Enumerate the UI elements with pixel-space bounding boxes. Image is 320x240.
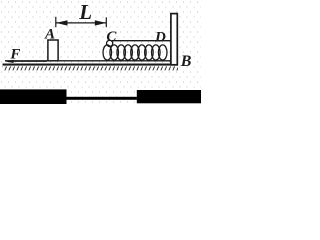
dimension L: left tick (55, 17, 57, 27)
bottom black bar right (137, 90, 201, 103)
svg-text:D: D (154, 29, 166, 45)
svg-text:A: A (44, 27, 55, 43)
dimension L: left arrowhead (56, 20, 68, 25)
wall B (171, 14, 177, 65)
ground thick band (3, 64, 179, 66)
bottom black bar middle thin (67, 97, 137, 100)
spring coil (103, 45, 167, 60)
dimension L: right tick (105, 17, 107, 27)
force F arrow (12, 60, 47, 62)
dimension L: line (56, 22, 106, 24)
spring end hook at C (107, 40, 113, 46)
svg-text:L: L (78, 0, 92, 24)
svg-text:C: C (106, 29, 117, 45)
block A (48, 40, 58, 61)
spring top rod line (112, 40, 171, 42)
svg-text:B: B (180, 53, 192, 70)
svg-text:F: F (9, 46, 20, 62)
ground surface line (5, 60, 171, 62)
dimension L: right arrowhead (95, 20, 106, 25)
bottom black bar left (0, 89, 67, 104)
ground hatching (3, 66, 179, 71)
